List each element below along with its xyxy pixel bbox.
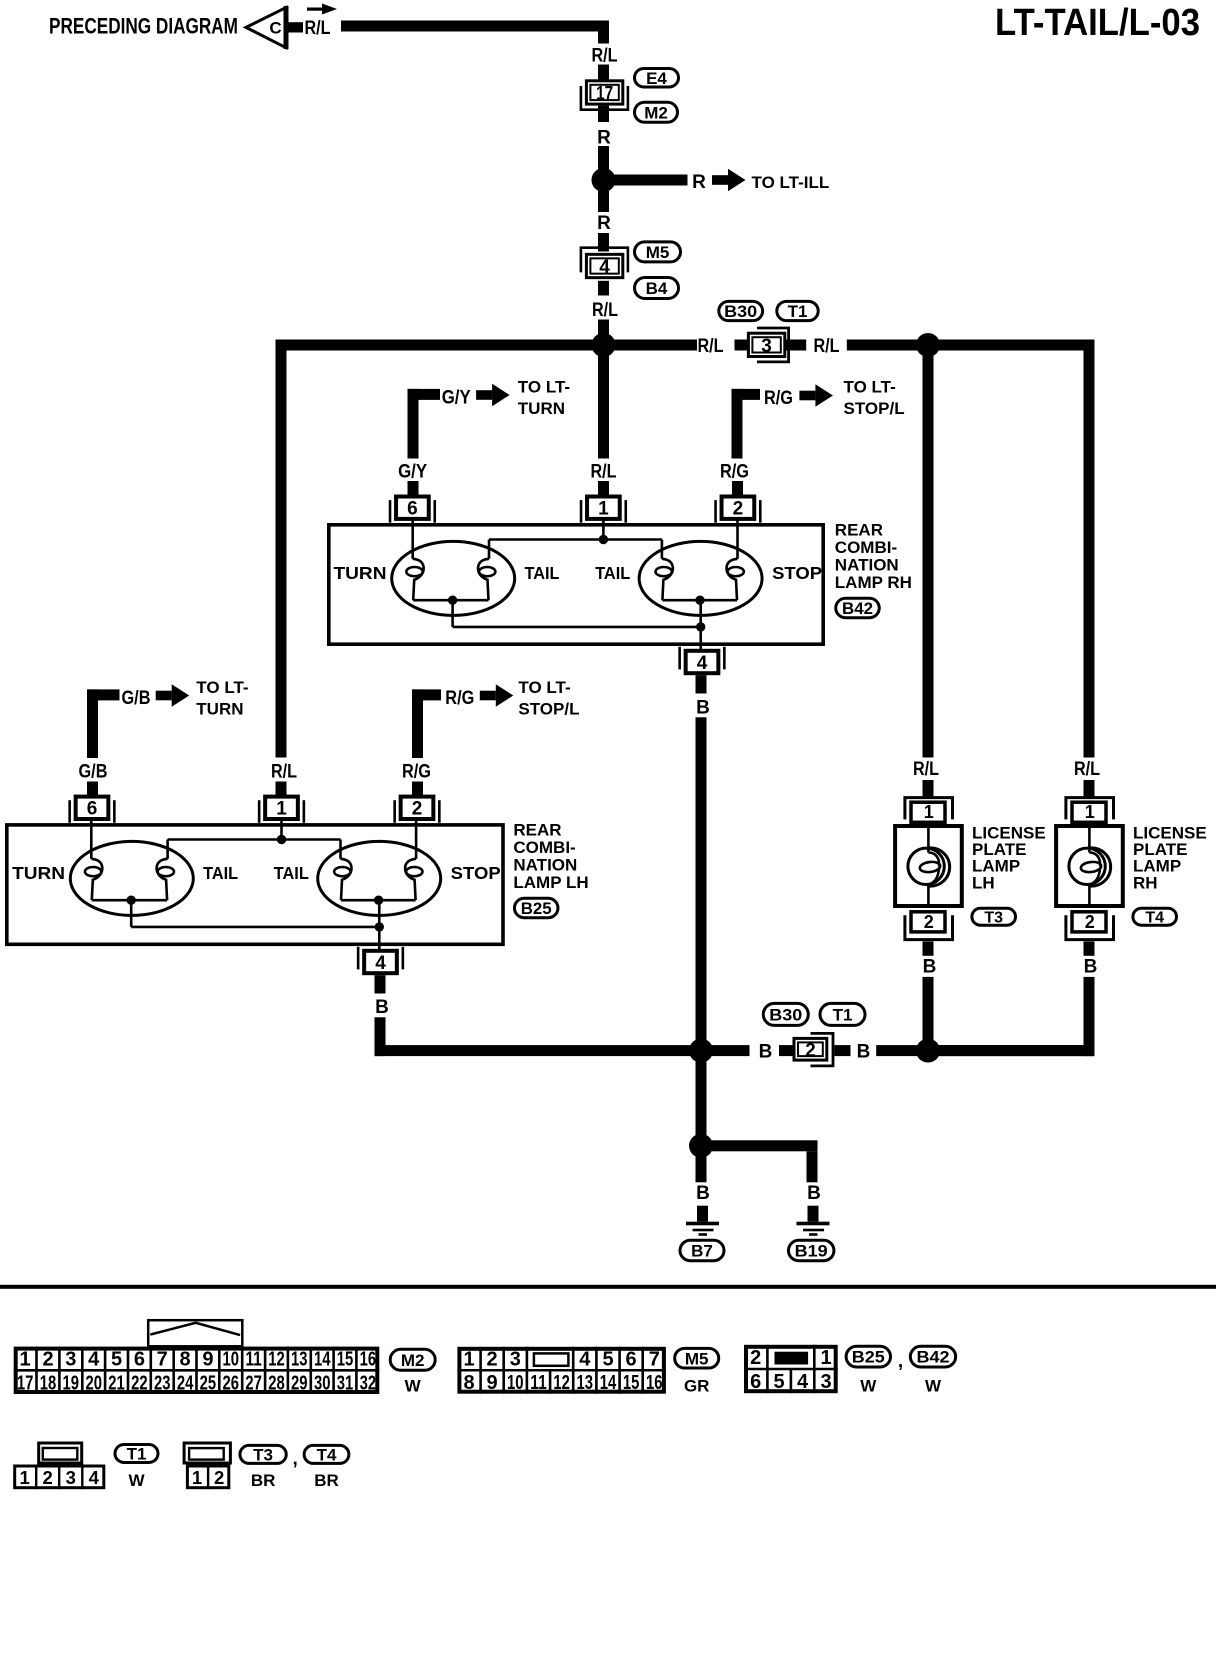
lead bulb to bottom license RH: [1088, 885, 1091, 907]
label W under B25: [860, 1377, 877, 1396]
svg-text:2: 2: [487, 1349, 498, 1371]
label B below pin 4 RH: [696, 698, 710, 719]
svg-text:R/G: R/G: [764, 388, 793, 409]
pin 6 box RH: [389, 497, 436, 523]
svg-text:2: 2: [805, 1040, 816, 1061]
wire stub above pin 1 RH: [598, 481, 609, 495]
svg-text:11: 11: [245, 1349, 262, 1371]
label G/Y branch: [442, 387, 471, 408]
svg-text:5: 5: [111, 1349, 122, 1371]
junction B bus right: [916, 1039, 940, 1063]
svg-text:B: B: [857, 1042, 871, 1063]
svg-text:6: 6: [87, 799, 98, 820]
svg-text:5: 5: [774, 1371, 785, 1393]
label R wire: [597, 128, 611, 149]
label B below pin 4 LH: [375, 997, 389, 1018]
svg-text:COMBI-: COMBI-: [835, 538, 897, 557]
svg-text:16: 16: [646, 1372, 663, 1394]
svg-text:1: 1: [192, 1467, 202, 1488]
svg-text:STOP: STOP: [451, 863, 501, 883]
wire stub above B label left: [696, 1151, 707, 1182]
wire R/G branch elbow LH: [412, 689, 441, 758]
connector pin 3 B30-T1: [748, 328, 788, 362]
svg-text:R/L: R/L: [305, 18, 331, 39]
svg-text:24: 24: [177, 1372, 194, 1394]
svg-text:4: 4: [599, 257, 610, 278]
label W under T1: [128, 1471, 145, 1490]
svg-text:20: 20: [85, 1372, 102, 1394]
svg-text:29: 29: [291, 1372, 308, 1394]
wire B down from bus: [696, 1056, 707, 1140]
svg-text:R/L: R/L: [271, 762, 297, 783]
svg-text:19: 19: [63, 1372, 80, 1394]
wire R/L top horizontal: [341, 21, 609, 32]
connector ref T3 oval: [972, 908, 1016, 926]
label GR under M5: [684, 1377, 710, 1396]
lead top to bulb license LH: [927, 826, 930, 853]
arrow R/G to LT-STOP-L LH: [480, 684, 514, 707]
label R/G above pin 2 RH: [720, 462, 749, 483]
svg-text:3: 3: [65, 1349, 76, 1371]
svg-text:B25: B25: [852, 1348, 885, 1367]
wire G/Y branch elbow RH: [408, 389, 441, 459]
wire stub below pin 4 RH: [696, 675, 707, 693]
svg-text:B: B: [375, 997, 389, 1018]
svg-text:TO LT-: TO LT-: [518, 678, 570, 697]
svg-text:1: 1: [1085, 802, 1095, 822]
svg-text:1: 1: [20, 1349, 31, 1371]
label B above ground B19: [807, 1183, 821, 1204]
lead pin 6 to bulb LH: [90, 821, 93, 859]
svg-text:TAIL: TAIL: [525, 563, 560, 583]
svg-text:R: R: [692, 172, 706, 193]
svg-text:1: 1: [20, 1467, 30, 1488]
label B below license lamp RH: [1084, 956, 1098, 977]
svg-text:T3: T3: [253, 1446, 273, 1465]
connector ref M2 oval grid: [390, 1349, 435, 1370]
connector ref B19 oval: [788, 1240, 834, 1261]
arrow marker above R/L: [307, 4, 337, 15]
wire branch to LT-ILL: [609, 175, 688, 186]
svg-text:G/B: G/B: [122, 688, 151, 709]
label W under M2: [405, 1377, 422, 1396]
pin 6 box LH: [68, 797, 115, 823]
svg-text:B: B: [807, 1183, 821, 1204]
label G/Y above pin 6: [398, 462, 427, 483]
connector pin 4 M5-B4: [581, 248, 628, 278]
bulb tail-stop LH: [318, 841, 441, 915]
svg-text:TAIL: TAIL: [203, 863, 238, 883]
svg-text:R/L: R/L: [1074, 759, 1100, 780]
svg-text:R/L: R/L: [592, 300, 618, 321]
wire R/G branch elbow RH: [732, 389, 761, 459]
svg-text:2: 2: [214, 1467, 224, 1488]
svg-text:TO LT-ILL: TO LT-ILL: [752, 173, 830, 192]
svg-text:R: R: [597, 213, 611, 234]
pin 2 license lamp LH: [905, 912, 953, 940]
label BR under T4: [314, 1471, 339, 1490]
wire G/B branch elbow LH: [87, 689, 120, 758]
pin 2 box LH: [393, 797, 440, 823]
svg-text:2: 2: [924, 912, 934, 932]
svg-text:STOP/L: STOP/L: [844, 399, 905, 418]
label G/B branch: [122, 688, 151, 709]
svg-text:B25: B25: [521, 899, 552, 918]
junction ground branch: [689, 1134, 713, 1158]
svg-text:B42: B42: [917, 1348, 950, 1367]
svg-text:TO LT-: TO LT-: [844, 378, 896, 397]
connector pin 2 B30-T1: [794, 1033, 833, 1066]
label R wire 2: [597, 213, 611, 234]
license plate lamp RH box: [1056, 826, 1123, 906]
connector ref B25 oval: [514, 898, 558, 918]
svg-text:B19: B19: [795, 1242, 828, 1261]
label TAIL RH right: [595, 563, 630, 583]
wire vertical to license lamp LH: [923, 351, 934, 758]
wire B bus dot to elbow: [934, 1045, 1095, 1056]
svg-text:5: 5: [602, 1349, 613, 1371]
wire stub above pin 6 LH: [87, 782, 98, 796]
wire stub right of triangle C: [286, 22, 303, 32]
svg-text:3: 3: [820, 1371, 831, 1393]
connector B25-B42 pin grid: [744, 1345, 838, 1393]
svg-text:B42: B42: [842, 599, 873, 618]
svg-text:10: 10: [223, 1349, 240, 1371]
svg-text:W: W: [128, 1471, 145, 1490]
label B left of connector 2: [759, 1042, 773, 1063]
svg-text:LAMP LH: LAMP LH: [513, 873, 588, 892]
svg-text:NATION: NATION: [835, 556, 899, 575]
connector ref E4 oval: [635, 68, 679, 87]
svg-text:17: 17: [17, 1372, 34, 1394]
svg-text:REAR: REAR: [513, 820, 561, 839]
pin 2 box RH: [714, 497, 761, 523]
svg-text:12: 12: [553, 1372, 570, 1394]
caption rear combination lamp LH: [513, 820, 588, 892]
bottom link rail RH: [453, 626, 701, 629]
bottom link rail LH: [131, 926, 379, 929]
svg-text:12: 12: [268, 1349, 285, 1371]
label TURN LH: [12, 863, 65, 883]
connector ref T1 oval grid: [115, 1445, 158, 1464]
connector ref M5 oval grid: [675, 1348, 719, 1368]
label R/G branch LH: [445, 688, 474, 709]
label R/G branch RH: [764, 388, 793, 409]
svg-text:23: 23: [154, 1372, 171, 1394]
svg-text:TURN: TURN: [12, 863, 65, 883]
junction main bus at center: [592, 333, 616, 357]
svg-text:2: 2: [42, 1349, 53, 1371]
connector C triangle: [246, 6, 286, 49]
svg-text:T4: T4: [1145, 909, 1164, 926]
lead pin 2 to bulb RH: [736, 521, 739, 559]
label R/L top left: [305, 18, 331, 39]
rear combination lamp LH box: [7, 825, 503, 944]
svg-text:,: ,: [293, 1449, 298, 1470]
svg-text:R/L: R/L: [698, 336, 724, 357]
wire stub above pin 1 LH: [276, 782, 287, 796]
wire stub below connector 17: [598, 106, 609, 122]
wire stub above pin 2 LH: [412, 782, 423, 796]
svg-text:6: 6: [407, 499, 418, 520]
svg-text:R/G: R/G: [402, 762, 431, 783]
caption rear combination lamp RH: [835, 520, 912, 592]
lead to pin 4 LH: [378, 927, 381, 951]
label STOP LH: [451, 863, 501, 883]
pin 1 license lamp LH: [905, 798, 953, 823]
connector ref T1 oval lower: [820, 1003, 865, 1025]
svg-text:LAMP RH: LAMP RH: [835, 573, 912, 592]
svg-text:R/G: R/G: [445, 688, 474, 709]
lead pin 2 to bulb LH: [415, 821, 418, 859]
svg-text:W: W: [925, 1377, 942, 1396]
label R/L right of connector 3: [814, 336, 840, 357]
svg-text:R: R: [597, 128, 611, 149]
svg-text:R/L: R/L: [591, 462, 617, 483]
svg-text:3: 3: [66, 1467, 76, 1488]
svg-text:22: 22: [131, 1372, 148, 1394]
wire stub to ground B19: [808, 1206, 819, 1222]
svg-text:COMBI-: COMBI-: [513, 838, 575, 857]
wire stub below pin 4 LH: [375, 975, 386, 993]
lead bulb left to bottom LH: [130, 900, 133, 927]
svg-text:LH: LH: [972, 873, 995, 892]
comma between B25 B42: [898, 1351, 903, 1372]
svg-text:17: 17: [596, 83, 613, 104]
svg-text:B: B: [696, 698, 710, 719]
arrow to LT-ILL: [712, 169, 746, 192]
svg-text:1: 1: [276, 799, 287, 820]
svg-text:W: W: [405, 1377, 422, 1396]
svg-text:NATION: NATION: [513, 856, 577, 875]
svg-text:W: W: [860, 1377, 877, 1396]
wire stub below junction: [598, 191, 609, 212]
lead pin 1 to tail rail RH: [602, 521, 605, 540]
connector T3-T4 pin view: [184, 1443, 230, 1489]
wire B bus right segment: [876, 1045, 1094, 1056]
svg-text:13: 13: [577, 1372, 594, 1394]
svg-text:18: 18: [40, 1372, 57, 1394]
svg-text:6: 6: [750, 1371, 761, 1393]
wire stub right of connector 2: [835, 1045, 851, 1056]
svg-text:M2: M2: [644, 103, 668, 122]
svg-text:8: 8: [463, 1372, 474, 1394]
pin 1 box LH: [258, 797, 305, 823]
wire B from lamp RH to bus: [696, 717, 707, 1045]
wire stub below license lamp LH: [923, 941, 934, 955]
svg-text:8: 8: [180, 1349, 191, 1371]
svg-text:STOP: STOP: [772, 563, 822, 583]
svg-text:B: B: [923, 956, 937, 977]
svg-text:TAIL: TAIL: [595, 563, 630, 583]
label B right of connector 2: [857, 1042, 871, 1063]
svg-text:TURN: TURN: [518, 399, 565, 418]
svg-text:B30: B30: [769, 1006, 802, 1025]
svg-text:B30: B30: [724, 302, 757, 321]
connector M2 pin grid: [14, 1320, 380, 1394]
svg-text:4: 4: [375, 953, 386, 974]
wire stub above pin 6 RH: [408, 481, 419, 495]
label TO LT-TURN RH: [518, 378, 570, 419]
connector M5 pin grid: [457, 1347, 666, 1394]
svg-text:4: 4: [579, 1349, 591, 1371]
wire stub right of connector 3: [785, 340, 806, 351]
lead bulb to bottom license LH: [927, 885, 930, 907]
junction bottom LH lamp: [375, 922, 384, 931]
svg-text:BR: BR: [314, 1471, 339, 1490]
svg-text:11: 11: [530, 1372, 547, 1394]
label R/L above license lamp RH: [1074, 759, 1100, 780]
ground symbol B19: [797, 1222, 830, 1236]
connector pin 17 E4-M2: [581, 81, 628, 110]
svg-text:B7: B7: [691, 1242, 713, 1261]
svg-text:TURN: TURN: [334, 563, 387, 583]
connector ref B42 oval grid: [910, 1346, 955, 1367]
svg-text:4: 4: [697, 653, 708, 674]
lead top to bulb license RH: [1088, 826, 1091, 853]
arrow R/G to LT-STOP-L RH: [799, 384, 833, 407]
wire stub above license lamp RH: [1084, 780, 1095, 797]
label STOP RH: [772, 563, 822, 583]
svg-text:13: 13: [291, 1349, 308, 1371]
bulb turn-tail LH: [70, 841, 193, 915]
svg-text:C: C: [269, 19, 281, 38]
wire left vertical to lamp LH pin 1: [276, 340, 287, 758]
svg-text:7: 7: [649, 1349, 660, 1371]
svg-text:B: B: [1084, 956, 1098, 977]
title LT-TAIL/L-03: [995, 2, 1200, 44]
label R/G above pin 2 LH: [402, 762, 431, 783]
svg-text:25: 25: [200, 1372, 217, 1394]
wire B license RH to bus: [1084, 977, 1095, 1056]
svg-text:GR: GR: [684, 1377, 710, 1396]
connector ref M5 oval: [635, 242, 681, 262]
connector ref T4 oval: [1133, 908, 1177, 926]
svg-text:28: 28: [268, 1372, 285, 1394]
svg-text:B: B: [759, 1042, 773, 1063]
label G/B above pin 6 LH: [79, 762, 108, 783]
svg-text:REAR: REAR: [835, 520, 883, 539]
svg-text:G/Y: G/Y: [398, 462, 427, 483]
wire stub into connector 4: [598, 233, 609, 252]
arrow G/Y to LT-TURN: [476, 384, 510, 407]
pin 4 box LH: [357, 947, 404, 974]
lead bulb left to bottom RH: [451, 600, 454, 627]
svg-text:1: 1: [463, 1349, 474, 1371]
connector ref M2 oval: [635, 102, 678, 122]
wire B from lamp LH to bus: [375, 1017, 386, 1056]
label R/L above connector 17: [592, 45, 618, 66]
pin 1 license lamp RH: [1066, 798, 1114, 823]
svg-text:31: 31: [337, 1372, 354, 1394]
wire stub into connector 17: [598, 65, 609, 81]
junction node to LT-ILL: [592, 168, 616, 192]
arrow G/B to LT-TURN: [156, 684, 190, 707]
svg-text:TO LT-: TO LT-: [518, 378, 570, 397]
svg-text:1: 1: [598, 499, 609, 520]
label TAIL RH left: [525, 563, 560, 583]
svg-text:E4: E4: [646, 69, 667, 88]
bulb turn-tail RH: [392, 541, 515, 615]
svg-text:2: 2: [1085, 912, 1095, 932]
label B below license lamp LH: [923, 956, 937, 977]
svg-text:2: 2: [733, 499, 744, 520]
label TO LT-TURN LH: [196, 678, 248, 719]
tail rail RH: [489, 540, 662, 559]
caption license plate lamp LH: [972, 824, 1046, 893]
svg-text:T1: T1: [833, 1006, 853, 1025]
svg-text:9: 9: [487, 1372, 498, 1394]
ground symbol B7: [686, 1222, 719, 1236]
connector ref B42 oval: [836, 598, 880, 618]
svg-text:B4: B4: [646, 279, 668, 298]
junction main bus right: [916, 333, 940, 357]
connector ref B4 oval: [635, 278, 679, 299]
svg-text:G/Y: G/Y: [442, 387, 471, 408]
svg-text:STOP/L: STOP/L: [518, 700, 579, 719]
caption license plate lamp RH: [1133, 824, 1207, 893]
svg-text:2: 2: [750, 1347, 761, 1369]
svg-text:32: 32: [360, 1372, 377, 1394]
wire main R/L bus left segment: [276, 340, 698, 351]
svg-text:4: 4: [797, 1371, 809, 1393]
svg-text:R/G: R/G: [720, 462, 749, 483]
svg-text:R/L: R/L: [814, 336, 840, 357]
svg-text:6: 6: [626, 1349, 637, 1371]
connector ref T1 oval: [777, 301, 818, 321]
comma between T3 T4: [293, 1449, 298, 1470]
pin 2 license lamp RH: [1066, 912, 1114, 940]
svg-text:PRECEDING DIAGRAM: PRECEDING DIAGRAM: [49, 14, 238, 39]
svg-text:M5: M5: [646, 243, 670, 262]
svg-text:14: 14: [314, 1349, 331, 1371]
node tail rail LH: [277, 835, 286, 844]
svg-text:10: 10: [507, 1372, 524, 1394]
separator line: [0, 1285, 1216, 1289]
label TO LT-STOP-L RH: [844, 378, 905, 419]
license plate lamp LH box: [895, 826, 962, 906]
label B above ground B7: [696, 1183, 710, 1204]
wire ground branch right: [701, 1140, 818, 1182]
svg-text:T1: T1: [127, 1445, 147, 1464]
label R/L above pin 1 RH: [591, 462, 617, 483]
svg-text:30: 30: [314, 1372, 331, 1394]
label TAIL LH left: [203, 863, 238, 883]
svg-text:27: 27: [245, 1372, 262, 1394]
label TO LT-ILL: [752, 173, 830, 192]
label R branch: [692, 172, 706, 193]
wire stub below license lamp RH: [1084, 941, 1095, 955]
svg-text:9: 9: [202, 1349, 213, 1371]
svg-text:1: 1: [924, 802, 934, 822]
svg-text:4: 4: [88, 1349, 100, 1371]
lead to pin 4 RH: [699, 627, 702, 651]
lead pin 1 to tail rail LH: [280, 821, 283, 840]
svg-text:BR: BR: [251, 1471, 276, 1490]
label R/L below connector 4: [592, 300, 618, 321]
svg-text:B: B: [696, 1183, 710, 1204]
connector ref B30 oval lower: [763, 1003, 808, 1025]
bulb tail-stop RH: [639, 541, 762, 615]
svg-text:15: 15: [337, 1349, 354, 1371]
wire stub below connector 4: [598, 281, 609, 296]
lead bulb right to bottom RH: [699, 600, 702, 627]
tail rail LH: [168, 840, 341, 859]
svg-text:14: 14: [600, 1372, 617, 1394]
svg-text:3: 3: [761, 336, 772, 357]
svg-text:LT-TAIL/L-03: LT-TAIL/L-03: [995, 2, 1200, 44]
wire stub above junction: [598, 146, 609, 170]
